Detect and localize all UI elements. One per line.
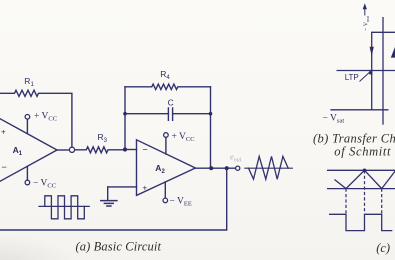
svg-text:+: + bbox=[1, 128, 6, 137]
svg-text:C: C bbox=[168, 97, 174, 107]
svg-text:− Vout: − Vout bbox=[364, 15, 371, 31]
svg-text:− VCC: − VCC bbox=[33, 178, 56, 189]
svg-text:of Schmitt: of Schmitt bbox=[334, 145, 391, 159]
svg-text:A2: A2 bbox=[155, 163, 165, 175]
svg-text:R4: R4 bbox=[160, 69, 170, 81]
svg-text:+ VCC: + VCC bbox=[34, 112, 57, 123]
svg-text:+ VCC: + VCC bbox=[172, 132, 195, 143]
svg-text:−: − bbox=[2, 162, 7, 172]
svg-text:−: − bbox=[143, 145, 148, 155]
svg-text:eout: eout bbox=[230, 152, 242, 164]
svg-text:− VEE: − VEE bbox=[170, 197, 192, 208]
svg-text:(c): (c) bbox=[376, 241, 390, 255]
svg-text:LTP: LTP bbox=[345, 73, 359, 82]
svg-text:A1: A1 bbox=[13, 145, 23, 157]
svg-text:R3: R3 bbox=[98, 132, 108, 144]
svg-text:+: + bbox=[143, 184, 148, 193]
svg-text:− Vsat: − Vsat bbox=[323, 114, 345, 125]
svg-text:(a) Basic Circuit: (a) Basic Circuit bbox=[76, 240, 162, 254]
svg-text:R1: R1 bbox=[24, 76, 34, 88]
svg-text:(b) Transfer Ch: (b) Transfer Ch bbox=[313, 131, 395, 145]
